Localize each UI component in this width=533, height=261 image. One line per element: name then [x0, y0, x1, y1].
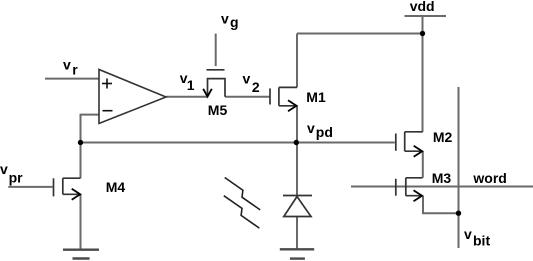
svg-text:v: v	[221, 11, 229, 27]
svg-text:2: 2	[252, 79, 260, 95]
svg-text:v: v	[243, 70, 251, 86]
svg-text:word: word	[472, 170, 506, 186]
svg-text:bit: bit	[473, 233, 490, 249]
svg-text:v: v	[464, 226, 472, 242]
svg-text:M2: M2	[433, 129, 453, 145]
svg-text:v: v	[307, 120, 315, 136]
svg-text:vdd: vdd	[410, 0, 435, 14]
svg-text:v: v	[63, 57, 71, 73]
svg-text:g: g	[230, 14, 239, 30]
svg-text:v: v	[0, 161, 8, 177]
svg-text:M3: M3	[432, 170, 452, 186]
svg-text:1: 1	[187, 77, 195, 93]
svg-text:M5: M5	[208, 102, 228, 118]
svg-text:M1: M1	[306, 89, 326, 105]
svg-text:r: r	[72, 61, 78, 77]
svg-text:pd: pd	[316, 124, 333, 140]
svg-text:pr: pr	[9, 170, 24, 186]
svg-text:M4: M4	[106, 179, 126, 195]
